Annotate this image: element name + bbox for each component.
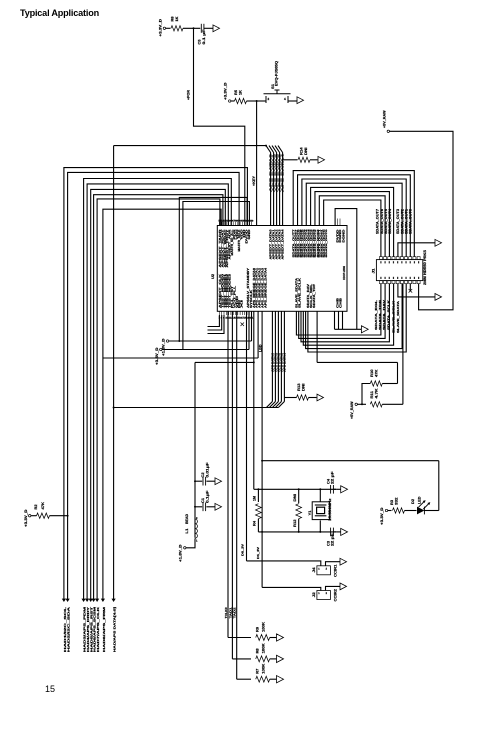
svg-text:+5V_RAW: +5V_RAW (350, 401, 354, 419)
svg-text:C3: C3 (326, 541, 330, 546)
svg-text:1: 1 (196, 540, 198, 543)
svg-text:R14: R14 (300, 147, 304, 155)
svg-text:SLAVE_SCLK: SLAVE_SCLK (297, 277, 301, 308)
svg-text:+KEY: +KEY (252, 175, 256, 186)
svg-text:2: 2 (326, 568, 328, 571)
svg-text:100K: 100K (262, 663, 266, 673)
svg-text:+5V_RAW: +5V_RAW (382, 110, 386, 128)
svg-text:R2: R2 (34, 505, 38, 510)
svg-text:100K: 100K (262, 622, 266, 632)
svg-text:100K: 100K (262, 643, 266, 653)
svg-text:+3.3V_D: +3.3V_D (159, 19, 163, 37)
svg-text:HAD7/APS_CLK: HAD7/APS_CLK (96, 605, 100, 652)
svg-text:D1_3V: D1_3V (256, 547, 260, 559)
svg-text:HDCP-2083: HDCP-2083 (342, 266, 346, 280)
svg-text:2: 2 (268, 97, 270, 101)
svg-text:4.7K: 4.7K (374, 388, 378, 399)
svg-text:SDATA_TDF: SDATA_TDF (312, 284, 316, 308)
svg-text:LED: LED (418, 496, 422, 504)
svg-text:DNI: DNI (302, 384, 306, 392)
svg-text:CCIR1: CCIR1 (334, 565, 338, 578)
svg-text:HAD/APS DATA[4:0]: HAD/APS DATA[4:0] (113, 607, 117, 652)
svg-text:SDATA_SCLK: SDATA_SCLK (386, 299, 390, 330)
svg-text:J4: J4 (312, 568, 316, 573)
svg-text:0.1 µF: 0.1 µF (202, 28, 206, 44)
svg-text:C4: C4 (326, 479, 330, 484)
svg-text:22 pF: 22 pF (331, 470, 335, 484)
svg-text:1: 1 (318, 568, 320, 571)
svg-text:R12: R12 (293, 519, 297, 527)
svg-text:16.384MHz: 16.384MHz (328, 498, 332, 521)
svg-text:0.01µF: 0.01µF (205, 461, 209, 477)
svg-text:TCLK0: TCLK0 (224, 607, 228, 618)
svg-text:XI: XI (240, 300, 244, 308)
svg-text:L1: L1 (185, 529, 189, 534)
svg-text:R11: R11 (370, 391, 374, 399)
svg-text:2: 2 (326, 592, 328, 595)
svg-text:4: 4 (284, 97, 286, 101)
svg-text:R10: R10 (370, 369, 374, 377)
svg-text:BEAD: BEAD (185, 514, 189, 524)
svg-text:APSEXT_DATA4: APSEXT_DATA4 (281, 229, 285, 259)
svg-text:HAD2/I2C_SDA: HAD2/I2C_SDA (67, 605, 71, 652)
svg-text:47K: 47K (374, 369, 378, 377)
svg-text:C2: C2 (201, 473, 205, 478)
svg-text:R7: R7 (256, 669, 260, 674)
svg-text:C1: C1 (201, 498, 205, 503)
svg-text:TAD2: TAD2 (233, 607, 237, 619)
svg-text:J2: J2 (312, 592, 316, 597)
svg-text:GND: GND (247, 228, 251, 239)
svg-text:APS_BRIDGE_DATA4: APS_BRIDGE_DATA4 (263, 268, 267, 308)
svg-text:D0_3V: D0_3V (241, 544, 245, 556)
svg-text:APS DATA4: APS DATA4 (283, 353, 287, 372)
svg-text:DNI: DNI (293, 494, 297, 502)
svg-text:R13: R13 (297, 383, 301, 391)
svg-text:1K: 1K (175, 16, 179, 21)
svg-text:+3.3V_D: +3.3V_D (380, 507, 384, 525)
svg-text:R4: R4 (253, 521, 257, 526)
svg-text:HAD8/APS_FRM: HAD8/APS_FRM (102, 606, 106, 652)
svg-text:SLAVE_SDATA: SLAVE_SDATA (396, 300, 400, 333)
svg-text:J1: J1 (372, 269, 376, 274)
svg-text:2: 2 (196, 517, 198, 520)
svg-text:R3: R3 (390, 500, 394, 505)
svg-text:332: 332 (395, 498, 399, 506)
svg-text:1M: 1M (253, 496, 257, 501)
svg-text:Y1: Y1 (308, 511, 312, 516)
svg-text:2MM HDR50 PRKS: 2MM HDR50 PRKS (423, 249, 427, 285)
svg-text:47K: 47K (41, 502, 45, 510)
svg-text:+1.8V_D: +1.8V_D (162, 338, 166, 356)
svg-text:U2: U2 (211, 274, 215, 279)
svg-text:39: 39 (251, 219, 254, 222)
svg-text:R9: R9 (256, 627, 260, 632)
svg-text:DNI: DNI (304, 148, 308, 156)
svg-text:+3.3V_D: +3.3V_D (223, 82, 227, 100)
svg-text:CCIR2: CCIR2 (334, 589, 338, 602)
svg-text:APS DATA4: APS DATA4 (281, 153, 285, 192)
svg-text:+3.3V_D: +3.3V_D (24, 509, 28, 527)
svg-text:+3.3V_D: +3.3V_D (155, 347, 159, 365)
svg-text:SDATA_OUT0: SDATA_OUT0 (409, 209, 413, 234)
svg-text:R8: R8 (256, 648, 260, 653)
svg-text:SDATA_OUT0: SDATA_OUT0 (325, 228, 328, 258)
svg-text:EVQ-PJS05Q: EVQ-PJS05Q (275, 61, 279, 86)
svg-text:SDATA_OUT4: SDATA_OUT4 (388, 209, 392, 234)
svg-text:D2: D2 (411, 499, 415, 504)
svg-text:1: 1 (318, 592, 320, 595)
svg-text:22 pF: 22 pF (331, 532, 335, 546)
svg-text:0.1µF: 0.1µF (205, 489, 209, 503)
svg-text:DGND: DGND (341, 228, 345, 242)
svg-text:CHB: CHB (338, 297, 342, 308)
svg-text:1K: 1K (238, 90, 242, 95)
svg-text:+1.8V_D: +1.8V_D (179, 544, 183, 562)
svg-text:+POR: +POR (187, 90, 191, 100)
